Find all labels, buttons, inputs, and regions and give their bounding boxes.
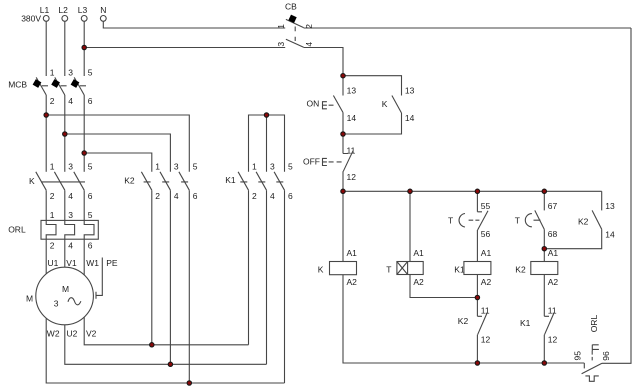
- wire K2 pole2 to bus1: [151, 190, 153, 345]
- svg-text:5: 5: [288, 162, 293, 172]
- node bottom bus K2 branch: [542, 361, 546, 365]
- CB mechanical link: [294, 27, 296, 42]
- interlock contact K2 NC 11-12 blade: [478, 313, 488, 335]
- contactor K1 mechanical link dashes: [240, 181, 283, 183]
- svg-text:68: 68: [548, 229, 558, 239]
- svg-text:PE: PE: [106, 258, 118, 268]
- node bus K2 branch: [542, 189, 546, 193]
- wire K2 pole4 to bus2: [169, 190, 171, 364]
- svg-text:4: 4: [68, 96, 73, 106]
- wire K2 interlock to bottom bus: [476, 335, 478, 363]
- svg-text:2: 2: [252, 191, 257, 201]
- pushbutton ON actuator: [323, 102, 334, 109]
- svg-text:W1: W1: [86, 258, 99, 268]
- wire K aux branch: [343, 76, 402, 96]
- overload contact ORL 95-96: [582, 345, 602, 382]
- timer delay symbol T NO: [525, 214, 540, 227]
- svg-text:ON: ON: [307, 98, 320, 108]
- svg-text:1: 1: [50, 210, 55, 220]
- timer delay symbol T NC: [459, 214, 479, 228]
- pushbutton ON NO contact: [333, 96, 343, 135]
- wire K2 branch lead: [543, 191, 545, 210]
- wire L1 vertical to MCB: [45, 21, 47, 76]
- svg-text:ORL: ORL: [589, 315, 599, 333]
- contactor K pole 3-4: [54, 172, 64, 190]
- pushbutton OFF actuator: [323, 158, 342, 165]
- overload relay ORL box: [41, 220, 98, 239]
- contactor K mechanical link: [41, 181, 85, 183]
- node L2 feed tap: [63, 132, 67, 136]
- svg-text:14: 14: [605, 229, 615, 239]
- svg-text:N: N: [100, 5, 106, 15]
- contactor K1 pole 3-4: [256, 172, 266, 190]
- svg-text:4: 4: [304, 42, 314, 47]
- contactor K2 pole 5-6: [179, 172, 189, 190]
- ORL thermal element pole 3-4: [65, 190, 75, 267]
- wire N to CB pole1: [103, 21, 285, 28]
- svg-text:2: 2: [50, 96, 55, 106]
- svg-text:K2: K2: [458, 316, 469, 326]
- svg-text:U2: U2: [67, 329, 78, 339]
- svg-text:5: 5: [88, 67, 93, 77]
- svg-text:96: 96: [601, 351, 611, 361]
- contactor K pole 5-6: [74, 172, 84, 190]
- wire T NC to K1 coil: [476, 230, 478, 262]
- svg-text:13: 13: [347, 86, 357, 96]
- terminal L2: [58, 5, 68, 22]
- node L3 feed tap: [82, 151, 86, 155]
- svg-text:L1: L1: [40, 5, 50, 15]
- wire K1 branch lead: [477, 191, 482, 212]
- svg-text:4: 4: [270, 191, 275, 201]
- svg-text:5: 5: [88, 210, 93, 220]
- svg-text:OFF: OFF: [303, 157, 320, 167]
- svg-text:V1: V1: [66, 258, 77, 268]
- svg-text:K2: K2: [515, 264, 526, 274]
- svg-text:A2: A2: [481, 277, 492, 287]
- svg-text:13: 13: [605, 201, 615, 211]
- svg-text:6: 6: [88, 96, 93, 106]
- wire L3 MCB to contactor K: [83, 95, 85, 172]
- wire K1 pole4 to bus2: [266, 190, 268, 364]
- wire K coil lead: [342, 191, 344, 261]
- node control rail split: [341, 74, 345, 78]
- node K2 pole6 on bus3: [187, 381, 191, 385]
- wire bus U2 to K2/K1: [65, 325, 267, 364]
- svg-text:3: 3: [68, 210, 73, 220]
- wire K2 pole6 to bus3: [188, 190, 190, 383]
- wire T coil to K1 branch: [410, 275, 477, 298]
- node L1 feed tap: [44, 113, 48, 117]
- svg-text:ORL: ORL: [8, 225, 26, 235]
- contactor K2 pole 3-4: [160, 172, 170, 190]
- interlock contact K1 NC 11-12 blade: [545, 313, 555, 335]
- svg-text:4: 4: [68, 241, 73, 251]
- wire bus V2 to K2/K1: [84, 317, 248, 345]
- svg-text:6: 6: [288, 191, 293, 201]
- contactor K1 pole 5-6: [274, 172, 284, 190]
- svg-text:3: 3: [174, 162, 179, 172]
- svg-text:K: K: [29, 176, 35, 186]
- node bus K branch: [341, 189, 345, 193]
- wire PE earth stub: [96, 258, 102, 299]
- breaker MCB pole 1-2: [33, 77, 48, 95]
- breaker MCB pole 5-6: [71, 77, 86, 95]
- svg-text:U1: U1: [48, 258, 59, 268]
- node bus K1 branch: [475, 189, 479, 193]
- terminal N: [100, 5, 106, 22]
- svg-text:3: 3: [68, 67, 73, 77]
- motor sine symbol: [68, 298, 81, 305]
- svg-text:67: 67: [548, 201, 558, 211]
- svg-text:5: 5: [88, 162, 93, 172]
- wire K1 pole2 to bus1: [248, 190, 250, 345]
- svg-text:K: K: [382, 99, 388, 109]
- coil K: [330, 262, 357, 275]
- svg-text:K2: K2: [124, 176, 135, 186]
- svg-text:1: 1: [276, 24, 286, 29]
- svg-text:K1: K1: [225, 175, 236, 185]
- svg-text:T: T: [386, 265, 391, 275]
- svg-text:A2: A2: [413, 277, 424, 287]
- svg-text:3: 3: [68, 162, 73, 172]
- pushbutton OFF NC contact: [343, 134, 353, 191]
- node K2 aux join: [542, 247, 546, 251]
- contactor K pole 1-2: [36, 172, 46, 190]
- svg-text:12: 12: [481, 334, 491, 344]
- svg-text:4: 4: [68, 191, 73, 201]
- ORL thermal element pole 5-6: [84, 190, 94, 275]
- svg-text:T: T: [448, 215, 453, 225]
- svg-text:K: K: [318, 265, 324, 275]
- svg-text:M: M: [26, 294, 33, 304]
- wire L1 feed to K2 pole5: [46, 115, 189, 172]
- svg-text:12: 12: [347, 172, 357, 182]
- svg-text:13: 13: [405, 86, 415, 96]
- svg-text:K1: K1: [520, 318, 531, 328]
- wire L3 feed to K2 pole1: [84, 153, 152, 172]
- node K2 pole2 on bus1: [150, 343, 154, 347]
- svg-text:1: 1: [50, 67, 55, 77]
- node bottom bus K1 branch: [475, 361, 479, 365]
- svg-text:1: 1: [155, 162, 160, 172]
- svg-text:2: 2: [155, 191, 160, 201]
- svg-text:1: 1: [252, 162, 257, 172]
- wire K2 coil to interlock: [544, 275, 549, 317]
- timer contact T NC 55-56 blade: [478, 211, 488, 230]
- ORL thermal element pole 1-2: [46, 190, 56, 274]
- svg-text:A2: A2: [548, 277, 559, 287]
- svg-text:11: 11: [548, 306, 557, 316]
- contactor K2 pole 1-2: [141, 172, 151, 190]
- svg-text:14: 14: [405, 113, 415, 123]
- svg-text:A1: A1: [347, 248, 358, 258]
- svg-text:L3: L3: [78, 5, 88, 15]
- wire K1 pole6 to bus3: [284, 190, 286, 383]
- wire ON branch lead: [342, 76, 344, 96]
- svg-text:A2: A2: [347, 277, 358, 287]
- wire control bus: [343, 190, 602, 192]
- svg-text:CB: CB: [285, 2, 297, 12]
- node K2 pole4 on bus2: [168, 362, 172, 366]
- contact K2 aux NO 13-14 blade: [592, 210, 602, 229]
- terminal L3: [78, 5, 88, 22]
- svg-text:K2: K2: [578, 217, 589, 227]
- breaker MCB pole 3-4: [51, 77, 66, 95]
- svg-text:W2: W2: [47, 329, 60, 339]
- svg-text:55: 55: [481, 201, 491, 211]
- wire K1 star bus: [249, 115, 285, 172]
- svg-text:3: 3: [270, 162, 275, 172]
- wire L2 feed to K2 pole3: [65, 134, 171, 172]
- contactor K1 pole 1-2: [238, 172, 248, 190]
- svg-text:1: 1: [50, 162, 55, 172]
- wire L1 MCB to contactor K: [45, 95, 47, 172]
- svg-text:MCB: MCB: [8, 80, 27, 90]
- timer contact T NO 67-68 blade: [535, 210, 545, 229]
- svg-text:4: 4: [174, 191, 179, 201]
- svg-text:M: M: [62, 284, 69, 294]
- wire K coil to bottom bus: [343, 275, 584, 363]
- breaker CB pole 1-2: [286, 15, 631, 28]
- wire K1 interlock to bottom bus: [543, 335, 545, 363]
- wire T NO to K2 coil: [543, 229, 545, 261]
- svg-text:T: T: [515, 215, 520, 225]
- svg-text:11: 11: [481, 306, 490, 316]
- svg-text:2: 2: [50, 191, 55, 201]
- svg-text:56: 56: [481, 229, 491, 239]
- svg-text:3: 3: [276, 42, 286, 47]
- wire K2 aux branch: [601, 191, 603, 210]
- svg-text:2: 2: [304, 24, 314, 29]
- node bus T branch: [408, 189, 412, 193]
- wire L2 MCB to contactor K: [64, 95, 66, 172]
- coil K1: [464, 262, 491, 275]
- svg-text:6: 6: [88, 241, 93, 251]
- svg-text:3: 3: [54, 299, 59, 309]
- node T coil join: [475, 295, 479, 299]
- svg-text:V2: V2: [86, 329, 97, 339]
- svg-text:12: 12: [548, 334, 558, 344]
- svg-text:A1: A1: [413, 248, 424, 258]
- svg-text:5: 5: [193, 162, 198, 172]
- terminal L1: [40, 5, 50, 22]
- breaker CB pole 3-4: [84, 39, 343, 75]
- svg-text:95: 95: [573, 351, 583, 361]
- svg-text:6: 6: [88, 191, 93, 201]
- wire L2 vertical to MCB: [64, 21, 66, 76]
- contactor K2 mechanical link dashes: [144, 181, 189, 183]
- node L3 tap to CB: [82, 45, 86, 49]
- svg-text:L2: L2: [58, 5, 68, 15]
- wire bus W2 to K2/K1: [46, 318, 284, 383]
- timer coil T: [397, 262, 423, 275]
- svg-text:14: 14: [347, 113, 357, 123]
- svg-text:2: 2: [50, 241, 55, 251]
- wire L3 vertical to MCB: [83, 21, 85, 76]
- svg-text:6: 6: [193, 191, 198, 201]
- svg-text:A1: A1: [548, 248, 559, 258]
- coil K2: [531, 262, 558, 275]
- svg-text:380V: 380V: [21, 14, 41, 24]
- svg-text:A1: A1: [481, 248, 492, 258]
- node K1 star point: [264, 113, 268, 117]
- wire K2 aux to coil join: [544, 229, 601, 249]
- wire K1 coil to interlock: [477, 275, 482, 317]
- motor M circle: [36, 267, 94, 325]
- contact K aux NO 13-14: [343, 96, 402, 135]
- node ON/K join: [341, 132, 345, 136]
- wire right rail neutral: [602, 28, 631, 363]
- wire T coil lead: [409, 191, 411, 261]
